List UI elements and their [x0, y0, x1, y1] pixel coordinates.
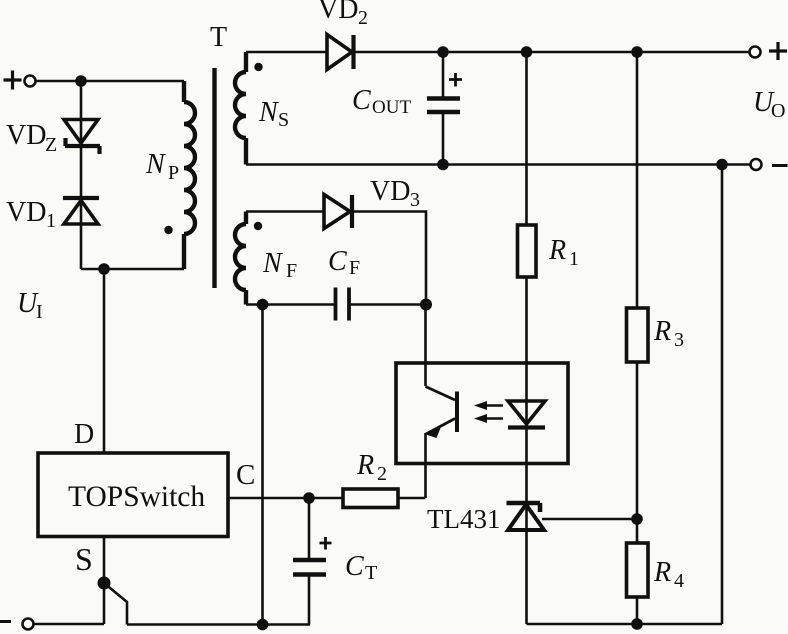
wire D pin [103, 269, 106, 453]
label + of CT [320, 537, 332, 550]
svg-text:T: T [210, 22, 227, 53]
wire NF bottom left [246, 303, 334, 306]
svg-text:N: N [258, 97, 279, 128]
svg-text:T: T [365, 562, 377, 584]
svg-text:2: 2 [377, 463, 387, 485]
wire secondary minus rail [246, 163, 750, 166]
label NP [145, 149, 179, 184]
label + (output) [769, 42, 787, 60]
label + of COUT [449, 73, 462, 87]
svg-text:N: N [262, 248, 283, 279]
output + terminal [750, 47, 761, 58]
label UO [753, 87, 785, 122]
optocoupler U1 box [396, 363, 568, 464]
resistor R4 [627, 543, 649, 597]
node C pin junction [303, 492, 315, 504]
wire input bottom [81, 268, 184, 271]
diode VD3 [324, 195, 352, 229]
label R3 [653, 316, 684, 351]
svg-text:3: 3 [674, 329, 684, 351]
node NF phase dot [254, 222, 262, 230]
svg-text:S: S [75, 541, 93, 577]
shunt regulator TL431 [507, 503, 545, 530]
node NS phase dot [254, 63, 262, 71]
svg-text:C: C [352, 85, 371, 116]
label NS [258, 97, 289, 131]
node NF bottom junction [257, 299, 269, 311]
wire clamp vertical [80, 81, 83, 269]
node bottom right rail R4 [631, 618, 643, 630]
svg-text:C: C [328, 246, 347, 277]
label + (input) [4, 71, 22, 90]
svg-text:3: 3 [410, 189, 420, 211]
wire NF return down [261, 305, 264, 626]
svg-text:R: R [653, 316, 671, 347]
wire R1 branch [525, 52, 528, 463]
wire opto emitter [424, 433, 427, 498]
label COUT [352, 85, 411, 118]
label CT [345, 551, 377, 584]
diode VD1 [63, 198, 99, 224]
diode VD2 [327, 35, 354, 70]
svg-text:R: R [548, 235, 566, 266]
wire bottom mid rail [127, 623, 310, 626]
opto LED [508, 401, 545, 428]
node minus rail right [716, 159, 728, 171]
wire NS top to diode [246, 51, 327, 54]
svg-text:4: 4 [674, 570, 684, 592]
capacitor COUT [427, 52, 460, 165]
wire S pin [103, 537, 106, 625]
label - (output) [772, 164, 788, 167]
node top rail Cout [437, 46, 449, 58]
output - terminal [751, 159, 762, 170]
svg-text:C: C [236, 459, 255, 491]
label VD3 [370, 176, 420, 211]
wire input top [36, 80, 184, 83]
transformer winding NP [184, 81, 195, 269]
transformer winding NS [235, 52, 246, 165]
switch blade [104, 583, 127, 625]
svg-text:I: I [36, 301, 43, 323]
label UI [17, 288, 43, 323]
node NP phase dot [164, 226, 172, 234]
svg-text:F: F [349, 257, 360, 279]
svg-text:S: S [278, 109, 289, 131]
zener diode VDZ [64, 120, 100, 155]
label VDZ [6, 120, 57, 156]
input - terminal [23, 619, 34, 630]
svg-text:TL431: TL431 [427, 504, 501, 534]
node D junction [98, 263, 110, 275]
wire opto collector [424, 305, 427, 387]
wire R3 branch [636, 52, 639, 624]
node S junction [98, 577, 111, 590]
svg-text:VD: VD [6, 197, 46, 228]
wire C pin [228, 497, 309, 500]
label R4 [653, 557, 684, 592]
svg-text:VD: VD [318, 0, 358, 25]
svg-text:TOPSwitch: TOPSwitch [68, 481, 205, 513]
svg-text:C: C [345, 551, 364, 582]
wire TL431 reference [542, 518, 637, 521]
svg-text:Z: Z [45, 134, 57, 156]
svg-text:P: P [168, 162, 179, 184]
svg-text:R: R [653, 557, 671, 588]
resistor R1 [518, 225, 537, 277]
wire bottom left rail [34, 623, 104, 626]
opto phototransistor [426, 387, 458, 439]
label - (input) [0, 620, 11, 623]
node top rail R1 [521, 46, 533, 58]
svg-text:N: N [145, 149, 166, 180]
label R2 [356, 450, 387, 485]
wire top rail [353, 51, 749, 54]
wire VD3 to corner [352, 212, 426, 305]
label CF [328, 246, 360, 279]
label VD1 [6, 197, 56, 232]
svg-text:OUT: OUT [372, 97, 411, 118]
svg-text:O: O [771, 100, 785, 122]
svg-text:D: D [74, 419, 94, 450]
transformer winding NF [235, 212, 246, 305]
node mid rail NF return [257, 619, 269, 631]
svg-text:1: 1 [46, 210, 56, 232]
resistor R2 [309, 489, 426, 508]
wire NF top [246, 210, 324, 213]
svg-text:R: R [356, 450, 374, 481]
wire LED cathode down [525, 463, 528, 624]
capacitor CF [336, 288, 427, 321]
svg-text:F: F [286, 260, 297, 282]
wire bottom right rail [527, 623, 723, 626]
node feedback junction [420, 299, 432, 311]
IC TOPSwitch box [38, 453, 228, 537]
capacitor CT [293, 498, 326, 625]
node input top junction [75, 75, 87, 87]
svg-text:2: 2 [358, 7, 368, 29]
opto led arrows [474, 401, 503, 423]
transformer core [212, 68, 216, 288]
label R1 [548, 235, 579, 270]
node top rail R3 [631, 46, 643, 58]
input + terminal [25, 76, 36, 87]
wire right side down [721, 165, 724, 625]
label VD2 [318, 0, 368, 29]
svg-text:1: 1 [569, 248, 579, 270]
resistor R3 [627, 308, 649, 362]
label NF [262, 248, 297, 282]
svg-text:VD: VD [6, 120, 46, 151]
node divider junction [631, 513, 643, 525]
node minus rail Cout [437, 159, 449, 171]
svg-text:VD: VD [370, 176, 410, 207]
